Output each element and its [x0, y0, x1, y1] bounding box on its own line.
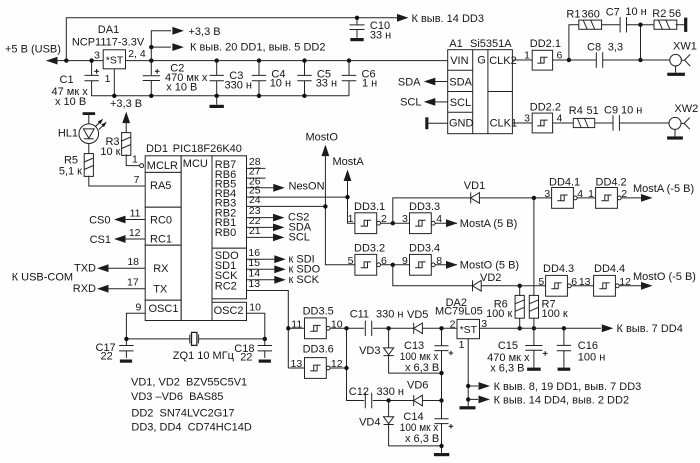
- svg-text:1: 1: [132, 153, 138, 165]
- svg-text:C11: C11: [350, 309, 369, 321]
- resistor R4: [553, 105, 599, 128]
- svg-text:10: 10: [249, 302, 261, 314]
- svg-text:C9: C9: [604, 104, 618, 116]
- node +3.3V branch: [149, 31, 171, 63]
- capacitor C15: [487, 328, 547, 374]
- node arrow K vyv.8 19 DD1: [468, 381, 641, 393]
- wire DD2.1 output line: [553, 58, 670, 62]
- svg-text:G: G: [477, 55, 486, 67]
- regulator DA2 MC79L05: [435, 297, 487, 351]
- inverter DD4.3: [538, 263, 577, 296]
- ground under XW1: [667, 66, 685, 76]
- svg-text:DD3.5: DD3.5: [303, 306, 334, 318]
- wire DD4.3 to DD4.4: [571, 276, 594, 288]
- pin 22 wire SDA: [247, 215, 312, 233]
- svg-text:RX: RX: [153, 263, 169, 275]
- svg-text:GND: GND: [449, 117, 474, 129]
- svg-text:1: 1: [524, 50, 530, 62]
- MCU DD1 PIC18F26K40: [145, 143, 246, 320]
- svg-text:7: 7: [134, 174, 140, 186]
- wire top +5V rail to DD3 supply: [66, 18, 398, 61]
- capacitor C14: [400, 373, 453, 453]
- capacitor C3: [210, 58, 252, 98]
- node arrow +3.3V: [172, 26, 220, 38]
- svg-text:К выв. 8, 19 DD1, выв. 7 DD3: К выв. 8, 19 DD1, выв. 7 DD3: [494, 381, 642, 393]
- capacitor C13: [400, 328, 453, 375]
- node arrow MostO (5V): [435, 260, 519, 272]
- svg-text:18: 18: [127, 256, 139, 268]
- svg-text:SCL: SCL: [450, 97, 471, 109]
- node parts list text: [131, 376, 252, 433]
- svg-text:9: 9: [402, 255, 408, 267]
- pin 27 stub: [247, 166, 266, 178]
- svg-text:OSC2: OSC2: [214, 305, 244, 317]
- svg-text:*ST: *ST: [106, 54, 124, 66]
- svg-text:100 к: 100 к: [486, 308, 512, 320]
- svg-text:330 н: 330 н: [376, 309, 403, 321]
- svg-text:9: 9: [135, 301, 141, 313]
- svg-text:VD1, VD2 BZV55C5V1: VD1, VD2 BZV55C5V1: [131, 376, 247, 388]
- svg-text:MostA (5 В): MostA (5 В): [460, 218, 517, 230]
- svg-text:DA1: DA1: [98, 24, 119, 36]
- svg-text:К выв. 7 DD4: К выв. 7 DD4: [617, 323, 683, 335]
- crystal ZQ1 10 MHz: [124, 332, 267, 361]
- svg-text:100 к: 100 к: [542, 308, 568, 320]
- svg-text:13: 13: [579, 276, 591, 288]
- capacitor C18: [234, 339, 272, 364]
- ground under C18: [259, 360, 271, 363]
- svg-text:MostA: MostA: [333, 156, 365, 168]
- capacitor C10: [350, 16, 392, 42]
- svg-text:DD2.1: DD2.1: [530, 38, 561, 50]
- svg-text:VD1: VD1: [464, 180, 485, 192]
- svg-text:100 н: 100 н: [578, 351, 605, 363]
- inverter DD4.2: [588, 177, 627, 209]
- svg-text:3,3: 3,3: [608, 41, 623, 53]
- svg-text:22: 22: [101, 351, 113, 363]
- svg-text:*ST: *ST: [460, 324, 478, 336]
- diode VD2: [393, 265, 546, 292]
- svg-text:DD3.2: DD3.2: [354, 243, 385, 255]
- inverter DD3.2: [348, 243, 387, 276]
- svg-text:21: 21: [249, 225, 261, 237]
- svg-text:К USB-COM: К USB-COM: [12, 272, 73, 284]
- capacitor C16: [557, 328, 606, 367]
- diode VD4: [359, 401, 441, 446]
- svg-text:VD5: VD5: [407, 309, 428, 321]
- node arrow K vyv.7 DD4: [602, 323, 683, 335]
- pin 11 wire CS0: [89, 208, 145, 227]
- capacitor C12: [349, 386, 414, 408]
- buffer DD2.2: [512, 102, 562, 133]
- svg-text:Si5351A: Si5351A: [470, 38, 512, 50]
- svg-text:MostO (5 В): MostO (5 В): [460, 260, 519, 272]
- node junction top rail tap: [64, 58, 68, 62]
- pin 26 wire NesON: [247, 175, 325, 192]
- svg-text:OSC1: OSC1: [149, 303, 179, 315]
- ground under C10: [350, 38, 363, 41]
- svg-text:NesON: NesON: [289, 181, 325, 193]
- wire R1 branch: [569, 25, 641, 60]
- svg-text:33 н: 33 н: [316, 78, 337, 90]
- svg-text:+3,3 В: +3,3 В: [189, 26, 221, 38]
- svg-text:ZQ1 10 МГц: ZQ1 10 МГц: [173, 350, 235, 362]
- node arrow +3.3V at R3: [110, 98, 142, 123]
- inverter DD3.4: [402, 243, 442, 276]
- svg-text:330 н: 330 н: [377, 386, 404, 398]
- svg-text:VD4: VD4: [359, 417, 380, 429]
- capacitor C5: [297, 58, 337, 98]
- diode VD1: [393, 180, 552, 223]
- svg-text:DD4.2: DD4.2: [596, 177, 627, 189]
- inverter DD3.6: [288, 344, 342, 379]
- wire +5V main rail: [47, 60, 448, 62]
- svg-text:24: 24: [249, 194, 261, 206]
- svg-text:TX: TX: [153, 283, 168, 295]
- svg-text:VIN: VIN: [450, 55, 468, 67]
- svg-text:CS1: CS1: [90, 234, 111, 246]
- svg-text:R4: R4: [569, 105, 583, 117]
- ground under C14: [434, 453, 449, 456]
- resistor R1: [566, 8, 601, 29]
- ground under C16: [558, 368, 571, 371]
- capacitor C6: [342, 58, 377, 95]
- svg-text:10 н: 10 н: [621, 104, 642, 116]
- svg-text:DD4.3: DD4.3: [543, 263, 574, 275]
- LED HL1: [58, 117, 108, 143]
- capacitor C7: [602, 6, 655, 32]
- svg-text:1: 1: [588, 188, 594, 200]
- svg-text:DD3.1: DD3.1: [354, 201, 385, 213]
- svg-text:VD6: VD6: [407, 380, 428, 392]
- pin 25 wire to MostA: [247, 185, 348, 197]
- svg-text:C7: C7: [606, 6, 620, 18]
- wire DD3.2 out: [381, 263, 410, 267]
- capacitor C11: [350, 309, 414, 336]
- resistor R3: [100, 121, 139, 166]
- svg-text:x 6,3 В: x 6,3 В: [405, 362, 439, 374]
- svg-text:VD3 –VD6 BAS85: VD3 –VD6 BAS85: [131, 391, 223, 403]
- pin 21 wire SCL: [247, 225, 310, 243]
- node MostO vertical: [306, 131, 356, 264]
- node terminal bar after R2: [676, 18, 688, 32]
- svg-text:RC1: RC1: [150, 234, 172, 246]
- pin 9 OSC1 wire: [126, 301, 145, 339]
- svg-text:11: 11: [291, 318, 302, 330]
- svg-text:13: 13: [291, 358, 303, 370]
- pin 18 wire TXD: [74, 256, 145, 274]
- pin 14 wire k SCK: [247, 267, 320, 286]
- svg-text:360: 360: [582, 8, 600, 20]
- svg-text:1: 1: [105, 73, 111, 85]
- connector XW2: [669, 103, 698, 129]
- svg-text:SDA: SDA: [449, 76, 472, 88]
- svg-text:DD4.4: DD4.4: [594, 263, 625, 275]
- pin 28 stub: [247, 156, 266, 168]
- svg-text:5,1 к: 5,1 к: [59, 166, 82, 178]
- svg-text:CS0: CS0: [89, 214, 110, 226]
- svg-text:17: 17: [127, 277, 139, 289]
- svg-text:+5 В (USB): +5 В (USB): [5, 44, 61, 56]
- node MostA vertical: [333, 156, 365, 223]
- buffer DD2.1: [512, 38, 562, 70]
- svg-text:1: 1: [348, 213, 354, 225]
- resistor R2: [652, 8, 681, 29]
- ground under C17: [120, 360, 132, 363]
- wire DD3.6 out and down to C12: [330, 328, 364, 400]
- svg-text:К выв. 14 DD4, выв. 2 DD2: К выв. 14 DD4, выв. 2 DD2: [494, 394, 629, 406]
- svg-text:RB0: RB0: [215, 227, 236, 239]
- svg-text:C15: C15: [498, 340, 518, 352]
- ground under C15: [527, 368, 541, 371]
- ground bar at A1 GND: [425, 117, 447, 129]
- diode VD3: [359, 328, 441, 373]
- svg-text:1 н: 1 н: [362, 78, 377, 90]
- pin 12 wire CS1: [90, 227, 146, 246]
- svg-text:5: 5: [538, 276, 544, 288]
- svg-text:MC79L05: MC79L05: [435, 306, 483, 318]
- svg-text:C1: C1: [60, 74, 74, 86]
- inverter DD3.1: [348, 201, 387, 234]
- pin 17 wire RXD: [73, 277, 145, 295]
- diode VD6: [407, 380, 444, 406]
- svg-text:3: 3: [402, 213, 408, 225]
- pin 13 wire RC2 to DD3.5/DD3.6: [247, 278, 289, 368]
- connector XW1: [670, 40, 697, 66]
- svg-text:RA5: RA5: [150, 180, 171, 192]
- svg-text:12: 12: [129, 227, 141, 239]
- svg-text:3: 3: [94, 49, 100, 61]
- svg-text:56: 56: [669, 8, 681, 20]
- svg-text:3: 3: [544, 188, 550, 200]
- svg-text:33 н: 33 н: [370, 30, 391, 42]
- svg-text:RC2: RC2: [215, 281, 237, 293]
- wire DD3.1 out: [381, 221, 410, 225]
- svg-text:A1: A1: [449, 38, 462, 50]
- resistor R6: [486, 286, 524, 331]
- svg-text:C8: C8: [587, 41, 601, 53]
- resistor R7: [529, 198, 568, 331]
- pin 24 wire to MostO: [247, 194, 326, 206]
- capacitor C4: [252, 58, 291, 98]
- svg-text:C16: C16: [578, 340, 598, 352]
- wire DA2 pin1 ground: [466, 339, 470, 407]
- svg-text:PIC18F26K40: PIC18F26K40: [173, 143, 242, 155]
- svg-text:10 н: 10 н: [270, 78, 291, 90]
- node arrow MostO (-5V): [619, 271, 696, 290]
- svg-text:2: 2: [450, 318, 456, 330]
- svg-text:SDA: SDA: [398, 76, 421, 88]
- svg-text:DD3.3: DD3.3: [409, 201, 440, 213]
- svg-text:330 н: 330 н: [225, 80, 252, 92]
- svg-text:R5: R5: [64, 154, 78, 166]
- resistor R5: [59, 144, 145, 187]
- pin 10 OSC2 wire: [247, 302, 265, 339]
- inverter DD3.5: [286, 306, 343, 339]
- svg-text:К выв. 20 DD1, выв. 5 DD2: К выв. 20 DD1, выв. 5 DD2: [190, 41, 325, 53]
- node arrow MostA (5V): [435, 218, 517, 230]
- pin 23 wire CS2: [247, 205, 310, 224]
- svg-text:К выв. 14 DD3: К выв. 14 DD3: [412, 13, 484, 25]
- svg-text:51: 51: [587, 105, 599, 117]
- svg-text:MostA (-5 В): MostA (-5 В): [633, 183, 694, 195]
- svg-text:MostO (-5 В): MostO (-5 В): [633, 271, 696, 283]
- svg-text:DD3, DD4 CD74HC14D: DD3, DD4 CD74HC14D: [131, 422, 251, 434]
- svg-text:DD2 SN74LVC2G17: DD2 SN74LVC2G17: [131, 408, 234, 420]
- svg-text:22: 22: [240, 352, 252, 364]
- capacitor C9: [595, 104, 670, 130]
- node arrow K vyv.20 DD1: [172, 41, 325, 53]
- node +5V arrow left: [5, 44, 61, 65]
- node arrow K vyv.14 DD4: [468, 394, 629, 406]
- svg-text:C12: C12: [349, 386, 369, 398]
- capacitor C17: [96, 339, 134, 363]
- node arrow MostA (-5V): [621, 183, 694, 202]
- svg-text:x 6,3 В: x 6,3 В: [490, 363, 524, 375]
- svg-text:DD3.4: DD3.4: [409, 243, 440, 255]
- capacitor C2: [143, 61, 208, 98]
- svg-text:CLK2: CLK2: [489, 55, 517, 67]
- inverter DD4.4: [594, 263, 632, 296]
- svg-text:MostO: MostO: [306, 131, 339, 143]
- svg-text:MCLR: MCLR: [147, 160, 178, 172]
- IC A1 Si5351A: [448, 38, 517, 134]
- node arrow K vyv.14 DD3: [397, 13, 484, 25]
- node power bar above HL1: [83, 112, 96, 124]
- svg-text:5: 5: [348, 255, 354, 267]
- svg-text:x 10 В: x 10 В: [55, 96, 86, 108]
- svg-text:NCP1117-3.3V: NCP1117-3.3V: [72, 37, 145, 49]
- capacitor C8: [587, 41, 623, 67]
- wire DD4.1 to DD4.2: [577, 197, 596, 199]
- ground under C3: [210, 96, 224, 108]
- svg-text:XW1: XW1: [673, 40, 697, 52]
- svg-text:R2: R2: [652, 8, 666, 20]
- svg-text:11: 11: [130, 208, 141, 220]
- diode VD5: [407, 309, 457, 334]
- regulator DA1 NCP1117-3.3V: [72, 24, 146, 98]
- svg-text:13: 13: [248, 278, 260, 290]
- svg-text:DD4.1: DD4.1: [549, 177, 580, 189]
- svg-text:x 10 В: x 10 В: [166, 82, 197, 94]
- svg-text:DD1: DD1: [146, 143, 168, 155]
- ground under XW2: [667, 129, 683, 139]
- svg-text:к SCK: к SCK: [289, 274, 320, 286]
- pin 1 MCLR bubble: [132, 153, 144, 167]
- svg-text:2, 4: 2, 4: [128, 48, 146, 60]
- svg-text:DD3.6: DD3.6: [303, 344, 334, 356]
- svg-text:RC0: RC0: [150, 214, 172, 226]
- wire ground rail: [92, 61, 349, 96]
- svg-text:HL1: HL1: [58, 128, 78, 140]
- svg-text:R1: R1: [566, 8, 580, 20]
- svg-text:XW2: XW2: [674, 103, 698, 115]
- node SDA arrow: [398, 76, 448, 88]
- svg-text:10 н: 10 н: [625, 6, 646, 18]
- capacitor C1: [52, 58, 99, 108]
- svg-text:RXD: RXD: [73, 283, 96, 295]
- svg-text:VD3: VD3: [359, 345, 380, 357]
- svg-text:3: 3: [524, 112, 530, 124]
- svg-text:SCL: SCL: [289, 231, 310, 243]
- svg-text:SCL: SCL: [400, 97, 421, 109]
- wire DD3.5 out to C11: [330, 326, 364, 330]
- pin 16 wire k SDI: [247, 247, 315, 266]
- ground under DA2: [460, 406, 476, 409]
- svg-text:10 к: 10 к: [100, 146, 120, 158]
- inverter DD4.1: [544, 177, 583, 209]
- node SCL arrow: [400, 97, 448, 109]
- inverter DD3.3: [402, 201, 442, 234]
- wire -5V output line: [480, 326, 602, 330]
- svg-text:x 6,3 В: x 6,3 В: [405, 433, 439, 445]
- svg-text:1: 1: [459, 339, 465, 351]
- svg-text:+3,3 В: +3,3 В: [110, 98, 142, 110]
- svg-text:VD2: VD2: [480, 272, 501, 284]
- svg-text:TXD: TXD: [74, 263, 96, 275]
- svg-text:MCU: MCU: [183, 158, 208, 170]
- pin 15 wire k SDO: [247, 257, 321, 276]
